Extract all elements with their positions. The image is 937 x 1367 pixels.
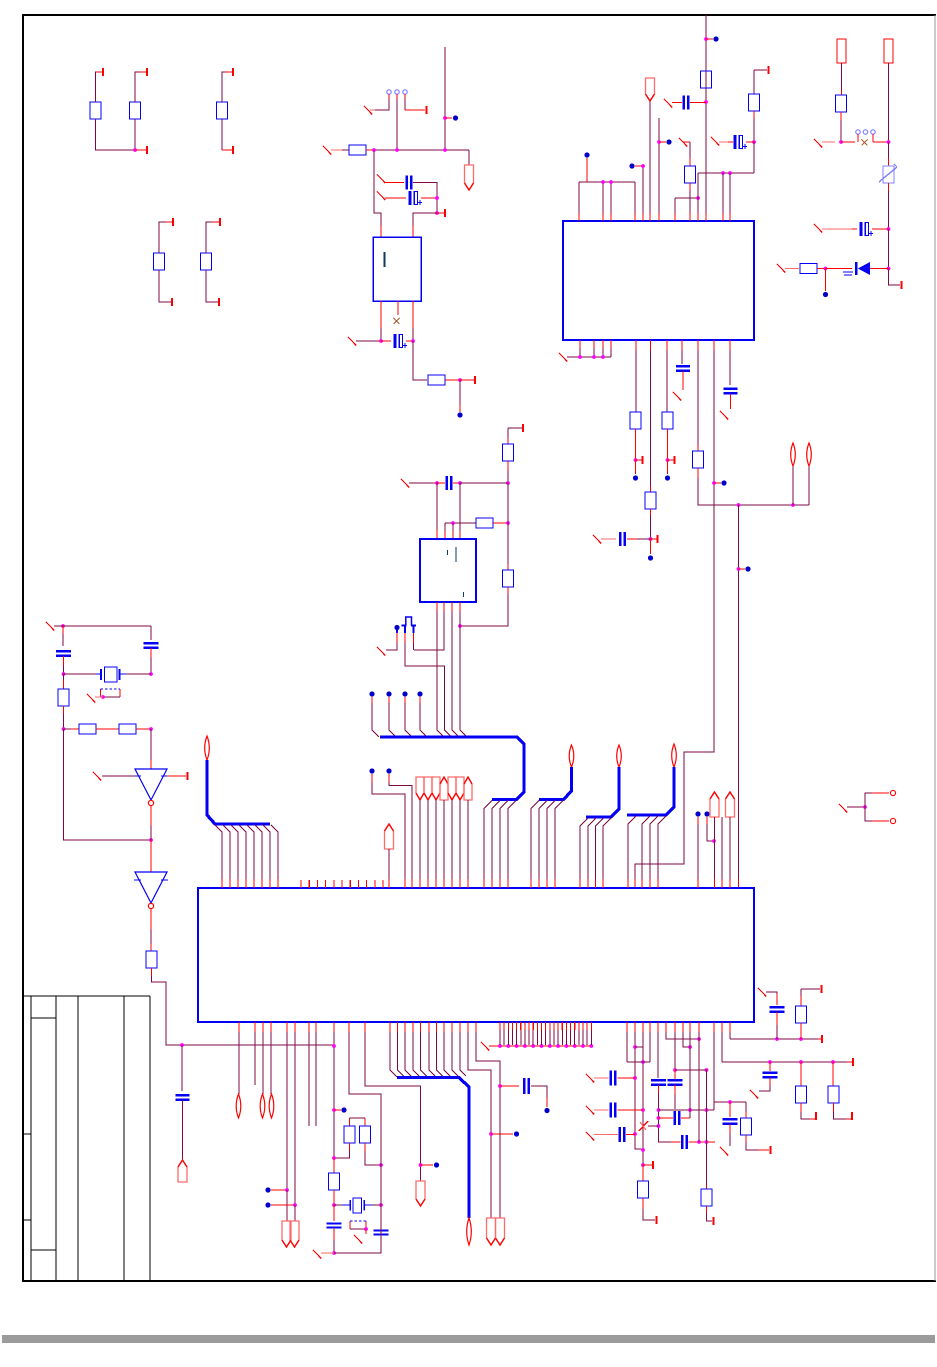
wire 11 [444, 47, 446, 150]
power port PF3 [385, 824, 394, 849]
node 2 [369, 691, 374, 696]
pin 19 [522, 424, 524, 432]
pin 45 [557, 1022, 559, 1030]
pin 10 [426, 106, 428, 114]
IC U4 [420, 539, 476, 602]
junction 41 [149, 727, 153, 731]
junction 64 [498, 1084, 502, 1088]
bus entry wire 34 [429, 1032, 436, 1077]
pin 31 [499, 1022, 501, 1030]
wire 172 [721, 1032, 723, 1062]
ground 4 [377, 191, 385, 200]
bus B5 [627, 767, 674, 815]
wire 87 [152, 976, 335, 1045]
pin 32 [503, 1022, 505, 1030]
power port PL3 [236, 1094, 241, 1118]
capacitor CM2 [523, 1078, 525, 1094]
resistor RB2 [201, 253, 212, 270]
junction 77 [633, 1045, 637, 1049]
node NB1 [457, 412, 462, 417]
wire 70 [889, 269, 901, 286]
junction 61 [364, 1227, 368, 1231]
wire net 1 [721, 817, 723, 879]
ground 28 [720, 1147, 728, 1156]
junction 29 [737, 567, 741, 571]
wire 164 [689, 1032, 691, 1110]
inverter bubble 2 [148, 903, 153, 908]
wire 17 [374, 150, 381, 226]
junction 76 [589, 1044, 593, 1048]
bus entry wire 28 [658, 816, 666, 879]
wire 12 [375, 99, 389, 110]
junction 59 [379, 1203, 383, 1207]
pin 48 [570, 1022, 572, 1030]
IC U1 [563, 221, 754, 340]
pin 25 [341, 880, 343, 888]
node NB6 [721, 480, 726, 485]
power port PB6 [467, 1218, 472, 1245]
junction 8 [379, 339, 383, 343]
wire 20 [380, 328, 382, 341]
bus entry wire 31 [405, 1032, 412, 1077]
bus B3 [539, 767, 572, 800]
junction 54 [332, 1044, 336, 1048]
wire 62 [635, 350, 714, 879]
bus entry wire 38 [460, 1032, 466, 1076]
pin 4 [232, 68, 234, 76]
wire 13 [396, 99, 398, 150]
ground 5 [348, 337, 356, 346]
wire 135 [350, 1117, 366, 1119]
pin 41 [541, 1022, 543, 1030]
junction 51 [863, 805, 867, 809]
polarized capacitor CT1 [734, 135, 737, 149]
bus entry wire 9 [372, 703, 379, 737]
clock marker 1 [413, 643, 415, 650]
junction 86 [657, 1124, 661, 1128]
wire Hc 1 [714, 1101, 746, 1103]
power port PF1 [646, 78, 655, 101]
junction 43 [180, 1043, 184, 1047]
wire 22 [356, 340, 380, 342]
junction 42 [149, 838, 153, 842]
pin 51 [582, 1022, 584, 1030]
power port 6 [456, 777, 464, 800]
wire 104 [386, 643, 397, 650]
regulator U2 [373, 237, 421, 301]
junction 65 [498, 1044, 502, 1048]
ground 11 [673, 392, 681, 401]
wire 59 [792, 466, 794, 505]
junction 31 [839, 140, 843, 144]
crystal Y1 [96, 673, 101, 675]
pin 29 [374, 880, 376, 888]
wire 1 [96, 72, 103, 102]
junction 19 [704, 37, 708, 41]
power port PF7 [290, 1221, 299, 1247]
resistor RB5 [662, 412, 673, 429]
wire 63 [729, 350, 731, 385]
wire 16 [468, 150, 470, 165]
wire 9 [206, 222, 219, 253]
wire 116 [467, 800, 469, 879]
connector pin 4 [856, 130, 860, 134]
junction 15 [696, 196, 700, 200]
junction 63 [489, 1132, 493, 1136]
wire 169 [729, 1133, 731, 1146]
wire 100 [460, 594, 508, 626]
junction 100 [799, 1037, 803, 1041]
wire 80 [103, 696, 120, 698]
connector pin 1 [387, 90, 391, 94]
ground 15 [777, 264, 785, 273]
capacitor CC7 [619, 1127, 621, 1142]
resistor RX2 [79, 724, 96, 734]
capacitor CC6 [610, 1103, 612, 1118]
node 5 [417, 691, 422, 696]
wire 98 [459, 483, 461, 531]
bus entry wire 36 [444, 1032, 451, 1077]
junction 28 [791, 503, 795, 507]
resistor RM3 [503, 570, 514, 587]
wire 106 [460, 611, 466, 736]
ground 7 [711, 137, 719, 146]
pin 6 [172, 218, 174, 226]
wire 49 [602, 348, 604, 357]
wire 40 [729, 173, 731, 213]
junction 66 [506, 1044, 510, 1048]
power port PF10 [496, 1218, 505, 1245]
title block table 1 [23, 995, 150, 997]
wire 111 [427, 800, 429, 879]
pin 17 [901, 281, 903, 289]
capacitor CC9 [763, 1072, 778, 1075]
pin 38 [528, 1022, 530, 1030]
junction 16 [721, 171, 725, 175]
wire 124 [238, 1032, 240, 1094]
pin 39 [532, 1022, 534, 1030]
pin 5 [222, 149, 232, 151]
junction 70 [540, 1044, 544, 1048]
power port PL4 [260, 1094, 265, 1118]
power port PB5 [672, 744, 677, 767]
wire 77 [126, 673, 151, 675]
resistor RB3 [630, 412, 641, 429]
pin 47 [565, 1022, 567, 1030]
capacitor CB2 [676, 365, 690, 367]
junction 40 [101, 695, 105, 699]
junction 44 [506, 481, 510, 485]
pin 46 [561, 1022, 563, 1030]
connector pin 6 [871, 130, 875, 134]
junction 95 [728, 1100, 732, 1104]
connector pin 5 [863, 130, 867, 134]
wire 129 [286, 1190, 288, 1221]
junction 60 [332, 1251, 336, 1255]
junction 11 [601, 180, 605, 184]
junction 37 [62, 672, 66, 676]
bus entry wire 26 [642, 816, 650, 879]
resistor RT3 [701, 71, 712, 88]
resistor RC3 [741, 1118, 752, 1135]
wire 81 [64, 728, 80, 730]
junction 4 [395, 148, 399, 152]
pin 53 [590, 1022, 592, 1030]
jumper JP2 [349, 1221, 351, 1229]
resistor RB4 [645, 492, 656, 509]
wire 88 [181, 1045, 183, 1091]
junction 26 [666, 458, 670, 462]
junction 14 [657, 140, 661, 144]
ground 9 [559, 353, 567, 362]
resistor RT1 [685, 166, 696, 183]
resistor RT2 [749, 94, 760, 111]
wire 8 [159, 270, 171, 302]
wire 78 [63, 674, 65, 689]
pin 36 [520, 1022, 522, 1030]
junction 92 [673, 1068, 677, 1072]
bus entry wire 4 [239, 825, 246, 879]
junction 22 [592, 355, 596, 359]
pin 14 [636, 459, 642, 461]
wire 134 [333, 1032, 335, 1158]
wire 38 [697, 173, 699, 213]
pin 57 [770, 1146, 772, 1154]
wire 43 [753, 118, 755, 142]
wire 97 [444, 523, 446, 531]
pin 61 [821, 1035, 823, 1043]
junction 74 [573, 1044, 577, 1048]
ground 12 [720, 411, 728, 420]
junction 96 [768, 1060, 772, 1064]
wire 153 [649, 1032, 651, 1062]
wire 139 [372, 1204, 381, 1206]
capacitor CB3 [724, 388, 738, 390]
wire H2 [675, 1069, 707, 1071]
resistor RC1 [638, 1181, 649, 1198]
wire 142 [350, 1228, 366, 1230]
bus entry wire 25 [628, 816, 636, 879]
junction 75 [581, 1044, 585, 1048]
wire 45 [705, 15, 707, 213]
wire 147 [531, 1086, 547, 1104]
wire 165 [698, 1032, 700, 1142]
resistor RX6 [360, 1126, 371, 1143]
pin 49 [574, 1022, 576, 1030]
junction 67 [515, 1044, 519, 1048]
bus B2 [380, 737, 524, 800]
ground 30 [758, 988, 766, 997]
pin 34 [511, 1022, 513, 1030]
inverter bubble 1 [148, 800, 153, 805]
jumper JP1 [100, 689, 102, 697]
wire 75 [150, 658, 152, 674]
ground 10 [593, 535, 601, 544]
junction 21 [578, 355, 582, 359]
wire 125 [254, 1032, 256, 1085]
junction 1 [133, 148, 137, 152]
wire 167 [707, 1213, 713, 1221]
junction 17 [728, 171, 732, 175]
wire 23 [413, 341, 427, 380]
junction 69 [531, 1044, 535, 1048]
bus entry wire 1 [215, 825, 222, 879]
wire 6 [221, 119, 223, 150]
pin 59 [815, 1112, 817, 1120]
wire 33 [675, 197, 698, 199]
wire 52 [650, 350, 652, 486]
ground 26 [586, 1106, 594, 1115]
wire 173 [759, 1085, 770, 1091]
power port 7 [464, 777, 472, 800]
ground 14 [814, 224, 822, 233]
bus entry wire 10 [389, 703, 396, 737]
wire 154 [643, 1209, 655, 1220]
resistor R_reg_in 1 [349, 145, 366, 155]
resistor RX7 [329, 1173, 340, 1190]
pin 7 [171, 298, 173, 306]
wire 156 [659, 1093, 672, 1142]
pin 54 [643, 1164, 652, 1166]
junction 55 [332, 1108, 336, 1112]
pin 8 [219, 218, 221, 226]
junction 79 [633, 1132, 637, 1136]
junction 97 [799, 1060, 803, 1064]
ground 1 [364, 106, 372, 115]
inverter U3B [135, 872, 167, 903]
pin 28 [366, 880, 368, 888]
pin 60 [851, 1112, 853, 1120]
ground 2 [323, 146, 331, 155]
wire 36 [689, 190, 691, 213]
pin 3 [135, 149, 146, 151]
wire 163 [683, 1032, 690, 1047]
resistor RA3 [217, 102, 228, 119]
power port PL1 [791, 443, 796, 466]
wire 28 [610, 182, 612, 213]
capacitor CC1 [651, 1079, 666, 1082]
wire 177 [766, 992, 777, 1000]
resistor RM1 [503, 444, 514, 461]
junction 93 [705, 1068, 709, 1072]
junction 83 [641, 1163, 645, 1167]
node NL2 [265, 1202, 270, 1207]
node NT4 [713, 36, 718, 41]
junction 34 [887, 267, 891, 271]
wire 109 [389, 782, 412, 879]
node NT1 [584, 152, 589, 157]
wire 112 [435, 800, 437, 879]
wire 14 [404, 99, 406, 110]
resistor RR2 [800, 264, 817, 274]
bus entry wire 35 [437, 1032, 444, 1077]
capacitor CX4 [327, 1222, 342, 1224]
wire 50 [610, 348, 612, 357]
wire 30 [642, 166, 644, 213]
wire 91 [507, 428, 509, 444]
pin 13 [768, 66, 770, 74]
ground 6 [679, 138, 687, 147]
node NM3 [386, 768, 391, 773]
power port PF4 [710, 792, 719, 817]
wire 101 [437, 611, 444, 737]
pin 18 [187, 772, 189, 780]
scrollbar gray bar 1 [2, 1335, 935, 1343]
bus entry wire 24 [603, 818, 611, 879]
capacitor CX2 [144, 642, 159, 645]
wire 86 [150, 930, 152, 951]
wire 149 [635, 1032, 643, 1149]
junction 62 [419, 1163, 423, 1167]
pin 21 [308, 880, 310, 888]
wire 21 [412, 328, 414, 341]
resistor RX3 [119, 724, 136, 734]
pin 42 [545, 1022, 547, 1030]
wire 130 [294, 1032, 296, 1205]
bus entry wire 21 [580, 818, 588, 879]
wire 66 [888, 63, 890, 142]
wire 122 [865, 793, 872, 807]
bus entry wire 2 [223, 825, 230, 879]
wire 179 [801, 988, 820, 990]
wire 107 [388, 849, 390, 879]
bus entry wire 19 [547, 801, 555, 880]
wire 4 [134, 119, 136, 150]
capacitor CX3 [176, 1094, 190, 1096]
wire 113 [443, 800, 445, 879]
wire 18 [413, 183, 437, 214]
wire H5 [659, 1109, 715, 1111]
wire 82 [64, 729, 152, 840]
wire 71 [54, 625, 151, 627]
wire 19 [413, 213, 437, 226]
pin 15 [651, 538, 657, 540]
junction 99 [775, 1037, 779, 1041]
ground 22 [313, 1250, 321, 1259]
wire 180 [800, 989, 802, 1000]
junction 91 [697, 1037, 701, 1041]
bus entry wire 17 [531, 801, 539, 880]
node NL6 [544, 1108, 549, 1113]
pin 40 [536, 1022, 538, 1030]
pin 22 [316, 880, 318, 888]
wire 93 [409, 482, 437, 484]
wire 5 [222, 72, 232, 102]
node NL5 [514, 1131, 519, 1136]
node NL4 [434, 1162, 439, 1167]
resistor RC5 [828, 1086, 839, 1103]
wire 110 [419, 800, 421, 879]
wire 162 [674, 1094, 676, 1109]
junction 27 [737, 503, 741, 507]
junction 53 [293, 1203, 297, 1207]
junction 46 [458, 481, 462, 485]
junction 48 [506, 521, 510, 525]
bus entry wire 3 [231, 825, 238, 879]
wire 60 [808, 466, 810, 505]
wire 29 [634, 182, 636, 213]
wire 151 [642, 1032, 644, 1165]
node NB3 [648, 555, 653, 560]
wire 83 [150, 729, 152, 760]
wire 3 [96, 119, 135, 150]
junction 30 [712, 481, 716, 485]
wire 47 [579, 348, 581, 357]
pin 11 [437, 212, 444, 214]
junction 88 [705, 1108, 709, 1112]
bus entry wire 12 [420, 703, 427, 737]
wire 79 [63, 714, 65, 729]
